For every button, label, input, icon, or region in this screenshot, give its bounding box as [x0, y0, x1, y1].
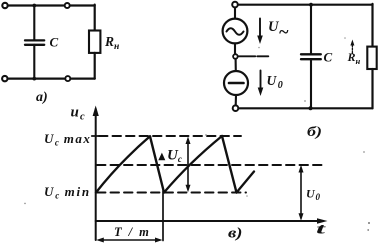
waveform drop 1 — [150, 136, 164, 192]
svg-text:U0: U0 — [267, 73, 285, 91]
wire top-right segment to load — [70, 4, 95, 6]
terminal T5 (top of source branch) — [232, 2, 238, 8]
svg-text:Uc max: Uc max — [44, 131, 91, 148]
resistor Rн (load, circuit a) — [89, 31, 100, 53]
label Uc max — [44, 131, 91, 148]
dashed line U0 level (middle) — [97, 164, 324, 166]
wire between AC source and node — [234, 44, 236, 55]
node J2 (capacitor tap, bottom) — [32, 77, 36, 81]
svg-text:T/m: T/m — [114, 225, 156, 239]
terminal T4 (output bottom) — [65, 76, 70, 81]
waveform ramp 2 — [164, 136, 222, 193]
wire load branch lower — [94, 53, 96, 79]
label U~ — [268, 19, 289, 42]
svg-text:U~: U~ — [268, 19, 289, 42]
wire source branch bottom — [235, 95, 237, 105]
terminal T3 (output top) — [65, 3, 70, 8]
arrow dUc (ripple, double-headed) — [186, 137, 191, 193]
wire capacitor lead lower — [33, 45, 35, 79]
wire bottom-left segment — [8, 77, 65, 79]
terminal T1 (input top-left) — [2, 3, 7, 8]
source G2 (DC source -) — [224, 71, 248, 95]
wire load branch upper — [94, 5, 96, 31]
source G1 (AC source ~) — [223, 19, 248, 44]
wire top-left segment — [8, 4, 64, 6]
wire between node and DC source — [235, 59, 237, 71]
wire bottom (b) — [239, 107, 373, 109]
line period boundary (below drop 1) — [162, 191, 164, 241]
scan speck — [205, 134, 365, 197]
label a) — [36, 90, 48, 105]
svg-text:Rн: Rн — [104, 34, 119, 52]
resistor Rн (load, circuit b) — [367, 47, 376, 69]
label C (circuit a) — [50, 35, 59, 50]
scan speck — [258, 37, 346, 102]
capacitor C (circuit a) — [25, 40, 44, 44]
waveform ramp 3 (partial) — [237, 172, 255, 193]
arrow U0 (voltage arrow, down) — [258, 71, 264, 97]
wire node tap — [238, 55, 269, 57]
wire capacitor lead upper (b) — [310, 5, 312, 55]
arrow T/m (period, double-headed) — [96, 238, 162, 243]
svg-text:uc: uc — [71, 105, 86, 123]
node J4 (capacitor branch, bottom) — [309, 106, 313, 110]
svg-text:C: C — [50, 35, 59, 50]
arrow at Rн (voltage arrow, up) — [350, 40, 354, 54]
svg-text:а): а) — [36, 90, 48, 105]
arrow U~ (voltage arrow, down) — [257, 19, 263, 45]
label dUc — [158, 148, 182, 165]
label b) — [307, 125, 322, 140]
scan speck — [367, 222, 370, 231]
axis Y (u_c) — [93, 106, 99, 241]
svg-text:в): в) — [228, 226, 243, 242]
label u_c (axis) — [71, 105, 86, 123]
axis X (t) — [96, 218, 328, 224]
terminal T6 (bottom of source branch) — [233, 105, 239, 111]
arrow U0 level (double-headed, graph) — [299, 165, 304, 221]
label t (axis) — [316, 222, 327, 238]
wire load branch lower (b) — [371, 69, 373, 108]
wire capacitor lead upper — [33, 6, 35, 41]
svg-text:Uc min: Uc min — [44, 184, 91, 201]
node N1 (between sources) — [233, 54, 238, 59]
label U0 — [267, 73, 285, 91]
waveform sawtooth ramp 1 — [96, 136, 150, 192]
dashed line Uc max level — [99, 135, 241, 137]
svg-text:Rн: Rн — [347, 50, 361, 66]
terminal T2 (input bottom-left) — [2, 76, 7, 81]
wire source branch top — [234, 8, 236, 19]
label Uc min — [44, 184, 91, 201]
label v) — [228, 226, 243, 242]
wire bottom-right segment — [71, 77, 95, 79]
svg-text:Uc: Uc — [167, 148, 182, 165]
scan speck — [24, 203, 26, 205]
label Rн (circuit b) — [347, 50, 361, 66]
label Rн (circuit a) — [104, 34, 119, 52]
dashed line Uc min level — [97, 192, 246, 194]
label T/m — [114, 225, 156, 239]
node J3 (capacitor branch, top) — [309, 3, 313, 7]
label C (circuit b) — [324, 50, 333, 65]
label U0 (graph) — [306, 187, 321, 203]
svg-text:б): б) — [307, 125, 322, 140]
waveform drop 2 — [222, 136, 237, 193]
svg-text:t: t — [316, 222, 327, 238]
wire load branch upper (b) — [371, 4, 373, 47]
svg-text:C: C — [324, 50, 333, 65]
node J1 (capacitor tap, top) — [32, 4, 36, 8]
tick Uc max — [92, 135, 100, 137]
wire top (b) — [238, 4, 372, 6]
capacitor C (circuit b) — [301, 54, 321, 59]
svg-text:U0: U0 — [306, 187, 321, 203]
wire capacitor lead lower (b) — [310, 59, 312, 108]
